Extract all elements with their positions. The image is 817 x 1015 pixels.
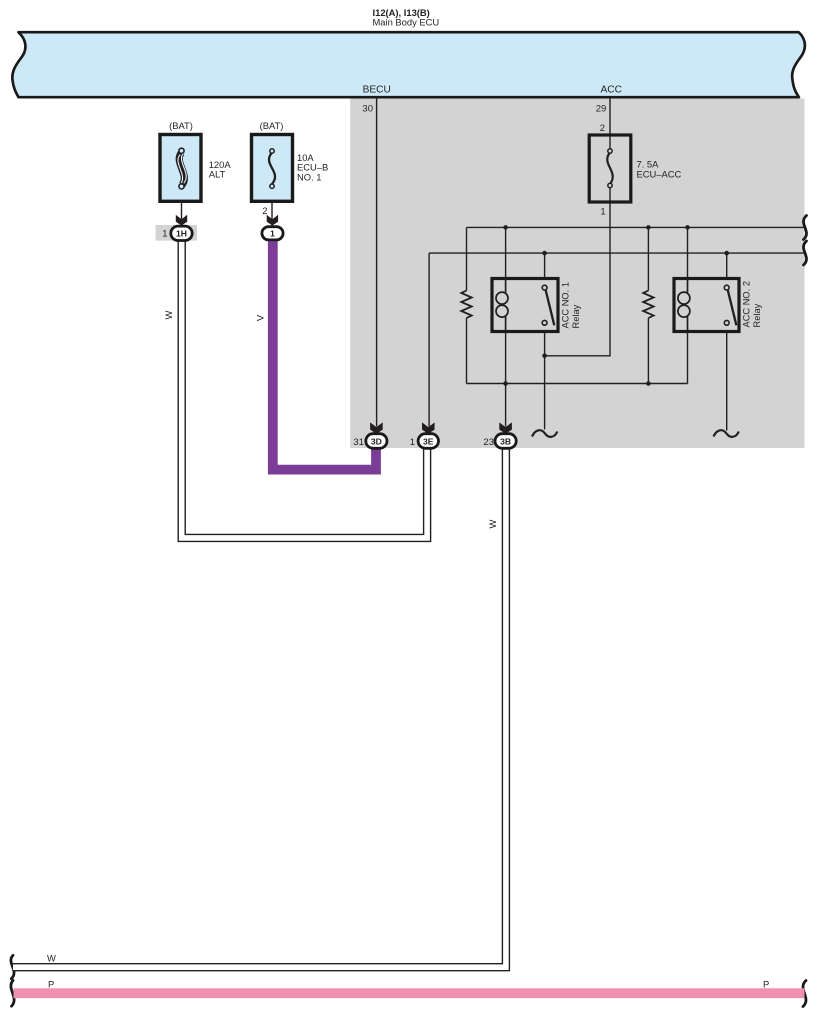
svg-text:(BAT): (BAT) <box>169 120 193 131</box>
svg-text:W: W <box>163 310 174 319</box>
svg-text:3E: 3E <box>423 436 434 446</box>
svg-text:W: W <box>487 519 498 528</box>
svg-text:Main Body ECU: Main Body ECU <box>373 17 440 28</box>
svg-text:3B: 3B <box>500 436 511 446</box>
svg-text:29: 29 <box>596 103 607 114</box>
svg-text:Relay: Relay <box>752 303 762 327</box>
svg-text:23: 23 <box>483 437 494 448</box>
svg-text:BECU: BECU <box>363 85 391 96</box>
svg-text:1: 1 <box>270 228 275 238</box>
svg-text:(BAT): (BAT) <box>260 120 284 131</box>
svg-text:31: 31 <box>353 437 364 448</box>
svg-text:ECU–ACC: ECU–ACC <box>637 169 682 180</box>
svg-text:1H: 1H <box>176 229 187 239</box>
svg-text:ACC NO. 1: ACC NO. 1 <box>561 282 571 329</box>
svg-text:1: 1 <box>162 229 167 240</box>
svg-text:Relay: Relay <box>571 304 581 328</box>
svg-text:1: 1 <box>410 437 415 448</box>
svg-text:2: 2 <box>600 123 605 134</box>
svg-text:3D: 3D <box>371 436 382 446</box>
svg-text:V: V <box>254 314 265 321</box>
svg-text:W: W <box>47 953 56 964</box>
svg-text:P: P <box>48 978 54 989</box>
svg-text:ALT: ALT <box>209 169 226 180</box>
svg-text:30: 30 <box>362 103 373 114</box>
svg-text:ACC NO. 2: ACC NO. 2 <box>742 281 752 328</box>
svg-text:ACC: ACC <box>601 85 623 96</box>
svg-text:NO. 1: NO. 1 <box>297 171 322 182</box>
svg-text:P: P <box>763 978 769 989</box>
svg-text:1: 1 <box>600 207 605 218</box>
